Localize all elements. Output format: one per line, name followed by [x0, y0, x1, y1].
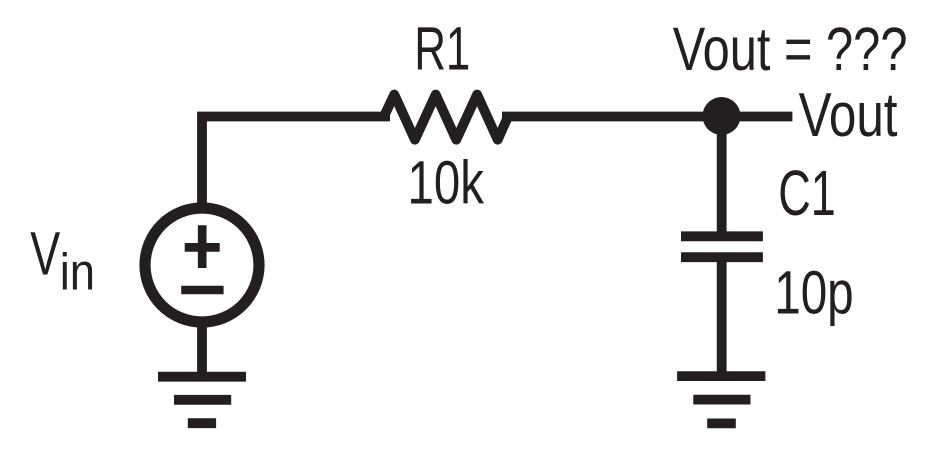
svg-text:in: in [60, 244, 95, 302]
svg-text:R1: R1 [414, 16, 470, 84]
svg-text:10p: 10p [774, 258, 853, 327]
svg-text:10k: 10k [408, 149, 485, 217]
svg-text:Vout = ???: Vout = ??? [673, 15, 908, 83]
svg-text:Vout: Vout [799, 79, 898, 149]
svg-text:C1: C1 [778, 157, 835, 229]
svg-text:V: V [30, 220, 60, 288]
